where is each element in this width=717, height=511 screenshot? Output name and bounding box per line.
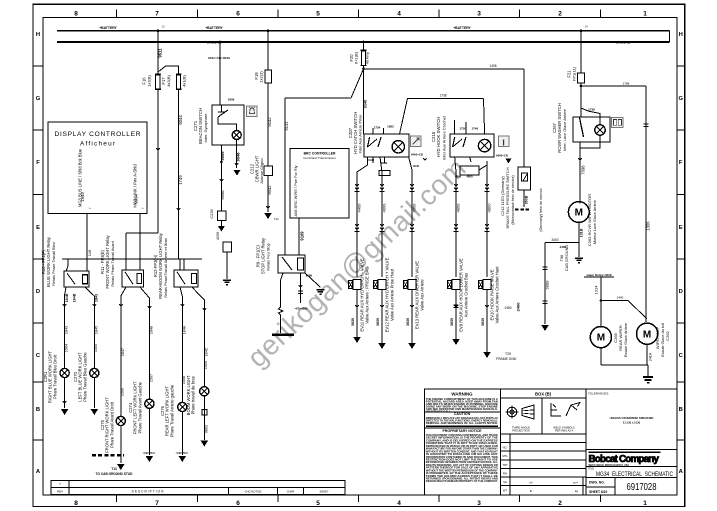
svg-text:Relais Phare Travail Bleu: Relais Phare Travail Bleu — [51, 242, 56, 286]
svg-text:cm²: cm² — [573, 480, 578, 484]
svg-text:I: I — [502, 137, 504, 147]
svg-text:HYD HOOK SWITCH: HYD HOOK SWITCH — [436, 117, 441, 158]
svg-text:Relais Feu Stop: Relais Feu Stop — [266, 243, 271, 271]
svg-text:1802: 1802 — [387, 124, 394, 128]
svg-text:241A: 241A — [649, 352, 653, 361]
svg-text:2: 2 — [558, 10, 562, 17]
svg-text:4x1(B): 4x1(B) — [182, 74, 187, 86]
svg-text:Moteur Lave Glace Arriere: Moteur Lave Glace Arriere — [593, 200, 597, 244]
svg-text:9140: 9140 — [363, 100, 368, 109]
svg-text:9141: 9141 — [284, 121, 289, 131]
svg-text:Afficheur: Afficheur — [80, 140, 116, 147]
svg-text:C239: C239 — [209, 209, 214, 218]
svg-text:H: H — [679, 32, 683, 38]
svg-text:TRT: TRT — [502, 463, 508, 467]
svg-text:T25: T25 — [505, 352, 511, 356]
svg-text:TOLERANCES:: TOLERANCES: — [588, 391, 609, 395]
svg-text:G: G — [36, 96, 41, 102]
svg-text:H: H — [36, 32, 40, 38]
svg-text:REAR WIPER: REAR WIPER — [618, 325, 623, 351]
svg-text:1314: 1314 — [594, 285, 599, 295]
svg-text:3400: 3400 — [551, 238, 558, 242]
svg-text:4x2(B): 4x2(B) — [166, 74, 171, 86]
svg-text:7: 7 — [155, 500, 159, 507]
svg-text:C262: C262 — [665, 330, 670, 340]
svg-text:2480: 2480 — [504, 306, 511, 310]
svg-text:1508: 1508 — [182, 376, 186, 384]
svg-text:Phare Travail Bleu Droit: Phare Travail Bleu Droit — [52, 354, 57, 399]
svg-text:3839: 3839 — [481, 318, 485, 326]
svg-text:9094: 9094 — [134, 194, 139, 204]
svg-text:4800: 4800 — [466, 175, 473, 179]
svg-text:WT: WT — [503, 489, 508, 493]
svg-text:CAB GROUND: CAB GROUND — [564, 245, 569, 272]
svg-text:4899: 4899 — [455, 203, 460, 213]
svg-text:Phare Travail Avant Gauche: Phare Travail Avant Gauche — [137, 381, 142, 433]
svg-text:Essuie Glace Arriere: Essuie Glace Arriere — [624, 323, 628, 357]
svg-text:Inter. Lave Glace Arriere: Inter. Lave Glace Arriere — [562, 109, 567, 151]
svg-text:4499: 4499 — [356, 203, 361, 213]
svg-text:184A: 184A — [182, 325, 186, 334]
svg-text:M: M — [575, 208, 583, 219]
svg-text:Alarme Cligno: Alarme Cligno — [259, 158, 264, 184]
svg-text:148: 148 — [87, 250, 92, 257]
svg-text:4: 4 — [397, 500, 401, 507]
svg-text:1306: 1306 — [646, 221, 651, 231]
svg-text:2.1 [X] ±.5 [X]: 2.1 [X] ±.5 [X] — [623, 421, 640, 425]
svg-text:1949: 1949 — [80, 192, 85, 202]
svg-text:DWG. NO.: DWG. NO. — [589, 480, 605, 484]
svg-text:131B: 131B — [579, 228, 583, 237]
svg-text:2: 2 — [558, 500, 562, 507]
svg-text:BRAKE FAIL PRESSURE SWITCH: BRAKE FAIL PRESSURE SWITCH — [505, 167, 510, 228]
svg-text:G: G — [678, 96, 683, 102]
svg-text:184B: 184B — [65, 293, 69, 302]
svg-text:Controleur Transmission: Controleur Transmission — [303, 156, 336, 160]
svg-text:T24: T24 — [274, 217, 279, 221]
svg-text:9042: 9042 — [267, 185, 272, 195]
svg-text:Phare travail de bras: Phare travail de bras — [191, 376, 196, 414]
svg-text:1848: 1848 — [149, 326, 153, 334]
svg-text:4899: 4899 — [455, 175, 462, 179]
svg-text:+BATTERY: +BATTERY — [99, 26, 117, 30]
svg-text:(Monocontact frein de service): (Monocontact frein de service) — [511, 175, 515, 224]
svg-text:1749: 1749 — [178, 175, 183, 185]
svg-text:A08 BRC WIRE / Pwr For Rly: A08 BRC WIRE / Pwr For Rly — [293, 165, 298, 216]
svg-text:M: M — [597, 333, 605, 344]
svg-text:=EB=4999: =EB=4999 — [295, 307, 308, 311]
svg-text:SHEET 6/10: SHEET 6/10 — [589, 490, 607, 494]
svg-text:4699: 4699 — [381, 203, 386, 213]
svg-text:DESIGN RIGHTS REMAIN PROPERTY: DESIGN RIGHTS REMAIN PROPERTY OF THE COM… — [426, 479, 498, 483]
svg-text:2400: 2400 — [516, 302, 521, 312]
svg-text:UNLESS OTHERWISE SPECIFIED: UNLESS OTHERWISE SPECIFIED — [610, 416, 654, 420]
svg-text:184B: 184B — [73, 293, 77, 302]
svg-text:9863: 9863 — [204, 425, 208, 433]
svg-text:9044: 9044 — [178, 115, 183, 125]
svg-text:DESCRIPTION: DESCRIPTION — [132, 490, 165, 494]
svg-text:+BATTERY: +BATTERY — [453, 26, 471, 30]
svg-text:3: 3 — [477, 500, 481, 507]
svg-text:1809: 1809 — [228, 98, 235, 102]
svg-text:Valve Aux Arriere : PRISE BAG: Valve Aux Arriere : PRISE BAG — [364, 266, 369, 323]
svg-text:4: 4 — [397, 10, 401, 17]
svg-text:8: 8 — [74, 500, 78, 507]
svg-text:B: B — [36, 407, 40, 413]
svg-text:1: 1 — [643, 10, 647, 17]
svg-text:9511: 9511 — [158, 48, 163, 58]
svg-text:7098: 7098 — [581, 165, 586, 175]
svg-text:1738: 1738 — [439, 94, 446, 98]
svg-text:9490=CB: 9490=CB — [411, 153, 423, 157]
svg-text:1498: 1498 — [489, 64, 496, 68]
svg-text:1507: 1507 — [149, 374, 153, 382]
svg-text:9099: 9099 — [220, 151, 225, 161]
svg-text:(Germany) frein de service: (Germany) frein de service — [539, 188, 543, 231]
svg-text:GROUND: GROUND — [615, 41, 631, 45]
svg-text:=CB=T13=: =CB=T13= — [143, 451, 156, 455]
svg-text:4209: 4209 — [216, 232, 220, 240]
svg-text:REV: REV — [57, 490, 63, 494]
svg-text:TITLE: TITLE — [588, 469, 595, 471]
svg-text:FP1(11): FP1(11) — [571, 66, 576, 81]
svg-text:lb: lb — [530, 489, 533, 493]
svg-text:Valve Aux Arriere Crochet Ha: Valve Aux Arriere Crochet Haut — [494, 266, 499, 324]
svg-text:1505: 1505 — [94, 344, 98, 352]
svg-text:1845: 1845 — [94, 326, 98, 334]
svg-text:1: 1 — [643, 500, 647, 507]
svg-text:E: E — [679, 225, 683, 231]
svg-text:1847: 1847 — [121, 348, 125, 356]
svg-text:1746: 1746 — [471, 126, 478, 130]
svg-text:6917028: 6917028 — [627, 482, 657, 493]
svg-text:DISPLAY CONTROLLER: DISPLAY CONTROLLER — [55, 131, 141, 138]
svg-text:D: D — [36, 289, 40, 295]
svg-text:CHKR: CHKR — [287, 490, 295, 494]
svg-text:1509: 1509 — [204, 361, 208, 369]
svg-text:5: 5 — [316, 500, 320, 507]
svg-text:350B: 350B — [525, 195, 529, 204]
svg-text:Inter. Gyrophare: Inter. Gyrophare — [203, 113, 208, 143]
svg-text:1788: 1788 — [623, 81, 630, 85]
svg-text:2490: 2490 — [617, 296, 624, 300]
svg-text:Phare Travail Bleu Gauche: Phare Travail Bleu Gauche — [82, 352, 87, 402]
svg-text:Inter Aux Arriere Crochet: Inter Aux Arriere Crochet — [442, 115, 447, 160]
svg-text:M: M — [643, 329, 651, 340]
svg-text:9109: 9109 — [300, 231, 305, 241]
svg-text:Valve Aux Arriere Prise Haut: Valve Aux Arriere Prise Haut — [389, 268, 394, 321]
svg-text:BOX (B): BOX (B) — [535, 392, 552, 397]
svg-text:F: F — [679, 160, 683, 166]
svg-text:kg: kg — [575, 489, 579, 493]
svg-text:1843: 1843 — [65, 326, 69, 334]
svg-text:FIN: FIN — [503, 471, 507, 475]
svg-text:FRAME GND: FRAME GND — [496, 357, 517, 361]
svg-text:1730: 1730 — [459, 126, 466, 130]
svg-text:wiper Relay=4209: wiper Relay=4209 — [585, 273, 611, 277]
svg-text:9490=CB: 9490=CB — [496, 154, 508, 158]
svg-text:F: F — [36, 160, 40, 166]
svg-text:1x2(B): 1x2(B) — [147, 74, 152, 86]
svg-text:9511=CB=9049: 9511=CB=9049 — [208, 56, 230, 60]
svg-text:3839: 3839 — [406, 318, 410, 326]
svg-text:8: 8 — [74, 10, 78, 17]
svg-text:6: 6 — [236, 500, 240, 507]
svg-text:Aux Arriere Crochet Bas: Aux Arriere Crochet Bas — [463, 273, 468, 317]
svg-text:3: 3 — [477, 10, 481, 17]
svg-text:TO CAB GROUND STUD: TO CAB GROUND STUD — [96, 472, 133, 476]
svg-text:PER AWS A2.4: PER AWS A2.4 — [555, 428, 574, 432]
svg-text:9142: 9142 — [267, 117, 272, 127]
svg-text:Valve Aux Arriere: Valve Aux Arriere — [419, 279, 424, 311]
svg-text:CHG NOTICE: CHG NOTICE — [245, 490, 262, 494]
svg-text:4040: 4040 — [413, 164, 420, 168]
svg-text:=CB=T13=: =CB=T13= — [176, 451, 189, 455]
svg-text:9888: 9888 — [545, 280, 550, 290]
svg-text:MTL: MTL — [502, 454, 508, 458]
svg-text:+BATTERY: +BATTERY — [205, 26, 223, 30]
svg-text:E: E — [36, 225, 40, 231]
svg-text:T13: T13 — [111, 467, 117, 471]
svg-text:in²: in² — [529, 480, 532, 484]
svg-text:40 Amp: 40 Amp — [366, 52, 370, 64]
svg-text:6: 6 — [236, 10, 240, 17]
svg-text:1734: 1734 — [374, 126, 381, 130]
svg-text:1x2(3): 1x2(3) — [259, 71, 264, 83]
svg-text:PROJECTION: PROJECTION — [512, 428, 529, 432]
svg-text:D: D — [679, 289, 683, 295]
svg-text:B: B — [679, 407, 683, 413]
svg-text:3839: 3839 — [351, 318, 355, 326]
svg-text:SH: SH — [503, 480, 507, 484]
svg-text:Relais Phare Travail Avant: Relais Phare Travail Avant — [110, 240, 115, 286]
svg-text:Phare Travail Arriere gauche: Phare Travail Arriere gauche — [169, 384, 174, 437]
svg-text:7: 7 — [155, 10, 159, 17]
svg-text:4800: 4800 — [486, 203, 491, 213]
svg-text:1843: 1843 — [95, 294, 99, 302]
svg-text:9046: 9046 — [236, 152, 241, 162]
svg-text:WARNING: WARNING — [451, 392, 473, 397]
svg-text:4699: 4699 — [381, 161, 388, 165]
svg-text:184C: 184C — [204, 347, 208, 356]
svg-text:NO.: NO. — [503, 446, 508, 450]
svg-text:1506: 1506 — [121, 388, 125, 396]
svg-text:9098: 9098 — [220, 190, 225, 200]
svg-text:SHEET: SHEET — [320, 490, 329, 494]
svg-text:MG34_ELECTRICAL_SCHEMATIC: MG34_ELECTRICAL_SCHEMATIC — [596, 471, 673, 478]
svg-text:3839: 3839 — [450, 318, 454, 326]
svg-text:4199: 4199 — [368, 158, 375, 162]
svg-text:C263 RCVR WIPER MOTOR: C263 RCVR WIPER MOTOR — [587, 194, 592, 246]
svg-text:WIPER TOP: WIPER TOP — [655, 326, 660, 349]
svg-text:Inter Aux Arriere Prise: Inter Aux Arriere Prise — [358, 114, 363, 154]
svg-text:1504: 1504 — [65, 344, 69, 352]
svg-text:Phare Travail Avant Droit: Phare Travail Avant Droit — [109, 401, 114, 448]
svg-text:Relais PhareTravail Arriere et: Relais PhareTravail Arriere et Bras — [163, 238, 168, 298]
svg-text:4599: 4599 — [411, 203, 416, 213]
svg-text:3839: 3839 — [376, 318, 380, 326]
svg-text:REMOVAL AND WARNINGS OF ALL AL: REMOVAL AND WARNINGS OF ALL ALERTS NOTED… — [426, 421, 498, 425]
svg-text:5: 5 — [316, 10, 320, 17]
svg-text:Bobcat Company: Bobcat Company — [589, 454, 660, 465]
svg-text:6+1(B): 6+1(B) — [354, 51, 359, 64]
